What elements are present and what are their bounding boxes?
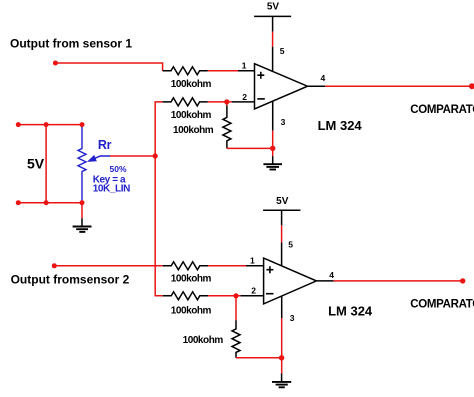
- U1 minus sign: [257, 98, 265, 100]
- svg-text:3: 3: [290, 313, 295, 323]
- wire: main vertical net from R2 row to U2 row2: [155, 102, 163, 296]
- wire U2 output: [334, 280, 463, 282]
- svg-text:3: 3: [281, 117, 286, 127]
- power bar 5V (top): [254, 15, 291, 17]
- node wiper junction: [153, 153, 158, 158]
- svg-text:100kohm: 100kohm: [171, 79, 212, 90]
- svg-text:100kohm: 100kohm: [173, 125, 214, 136]
- node U2 pin3/ground junction: [279, 355, 284, 360]
- wire U2 output stub: [316, 280, 333, 282]
- potentiometer Rr (blue): [78, 127, 86, 203]
- wire U2 pin3: [281, 296, 283, 318]
- wire U2 pin5: [281, 210, 283, 225]
- ground (U1 pin3): [263, 156, 282, 169]
- power bar 5V (bottom): [263, 209, 300, 211]
- resistor R3 (vertical): [223, 105, 231, 148]
- svg-text:100kohm: 100kohm: [171, 306, 212, 317]
- node output terminal 1: [469, 83, 474, 89]
- ground (pot): [73, 218, 92, 232]
- U1 plus sign: [257, 72, 264, 79]
- pin stub U1 pin 1: [238, 70, 255, 72]
- svg-text:COMPARATOR 2: COMPARATOR 2: [410, 299, 474, 311]
- svg-text:LM 324: LM 324: [318, 118, 363, 133]
- op-amp U2 triangle: [264, 258, 317, 304]
- pot wiper arrowhead: [88, 156, 96, 162]
- wire junction down to R6: [235, 296, 237, 321]
- wire U1 output stub: [308, 85, 326, 87]
- wire R2 to junction: [208, 101, 232, 103]
- ground (U2 pin3): [272, 373, 291, 387]
- svg-text:100kohm: 100kohm: [183, 335, 224, 346]
- wire R5 to junction: [208, 295, 241, 297]
- node junction R2/R3/U1pin2: [224, 99, 229, 104]
- svg-text:COMPARATOR 1: COMPARATOR 1: [410, 104, 474, 116]
- wire sensor2 to R4: [54, 265, 163, 267]
- svg-text:10K_LIN: 10K_LIN: [93, 184, 130, 195]
- resistor R5: [163, 292, 208, 300]
- node: sensor 1 terminal: [53, 61, 58, 66]
- node pin3/ground junction: [270, 146, 275, 151]
- battery 5V rails: top rail: [18, 124, 82, 126]
- pot wiper arrow line: [89, 156, 110, 161]
- svg-text:LM 324: LM 324: [328, 304, 373, 319]
- wire R4 to U2 pin1: [208, 265, 246, 267]
- resistor R4: [163, 262, 208, 270]
- svg-text:5: 5: [288, 240, 293, 250]
- wire wiper to vertical net: [110, 155, 155, 157]
- wire pot bottom to ground: [81, 203, 83, 219]
- battery bottom rail: [18, 202, 82, 204]
- node sensor 2 terminal: [52, 263, 57, 268]
- wire R6 bottom to pin3 node: [236, 357, 282, 359]
- wire R1 to U1 pin1: [208, 70, 238, 72]
- svg-text:4: 4: [329, 270, 334, 280]
- op-amp U1 triangle: [255, 64, 308, 109]
- svg-text:2: 2: [242, 92, 247, 102]
- svg-text:Output fromsensor 2: Output fromsensor 2: [11, 273, 130, 287]
- node output terminal 2: [460, 278, 465, 283]
- wire U1 pin5: [272, 16, 274, 31]
- wire sensor1 to R1: [55, 63, 162, 71]
- resistor R6 (vertical): [232, 320, 240, 357]
- svg-text:1: 1: [242, 60, 247, 70]
- svg-text:Rr: Rr: [98, 138, 112, 152]
- svg-text:100kohm: 100kohm: [171, 110, 212, 121]
- node junction R5/R6/U2pin2: [233, 293, 238, 298]
- wire U1 output: [325, 85, 471, 87]
- U2 minus sign: [266, 293, 274, 295]
- svg-text:4: 4: [321, 73, 326, 83]
- svg-text:5V: 5V: [267, 2, 280, 13]
- svg-text:50%: 50%: [110, 164, 127, 174]
- battery vertical: [45, 125, 47, 203]
- svg-text:100kohm: 100kohm: [171, 274, 212, 285]
- wire U1 pin3: [272, 101, 274, 130]
- svg-text:5: 5: [280, 46, 285, 56]
- svg-text:5V: 5V: [276, 196, 289, 207]
- svg-text:5V: 5V: [27, 156, 45, 172]
- U2 plus sign: [266, 266, 273, 273]
- resistor R2: [163, 98, 208, 106]
- svg-text:1: 1: [250, 255, 255, 265]
- wire junction down to R3: [226, 102, 228, 106]
- pin stub U1 pin 2: [232, 101, 255, 103]
- pin stub U2 pin 1: [246, 265, 264, 267]
- svg-text:2: 2: [251, 285, 256, 295]
- svg-text:Output from sensor 1: Output from sensor 1: [10, 37, 132, 51]
- pin stub U2 pin 2: [241, 295, 264, 297]
- resistor R1: [163, 67, 208, 75]
- battery rail nodes: [16, 122, 21, 127]
- wire R3 bottom to pin3 node: [227, 147, 273, 149]
